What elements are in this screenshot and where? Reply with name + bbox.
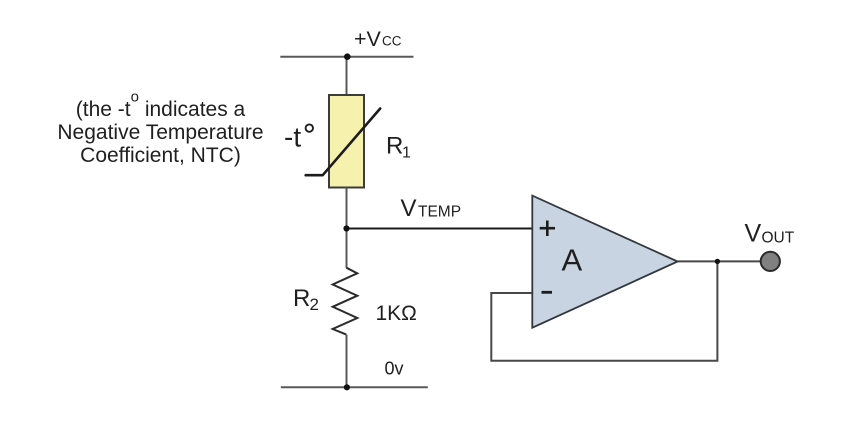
svg-text:V: V (401, 195, 417, 222)
svg-text:A: A (562, 243, 583, 278)
svg-text:-t: -t (284, 122, 301, 153)
svg-text:Negative Temperature: Negative Temperature (57, 121, 263, 144)
svg-text:2: 2 (310, 295, 319, 314)
svg-text:1: 1 (402, 145, 411, 162)
svg-text:TEMP: TEMP (418, 203, 461, 220)
svg-text:(the -to indicates a: (the -to indicates a (76, 89, 246, 122)
svg-text:Coefficient, NTC): Coefficient, NTC) (80, 144, 241, 167)
svg-text:R: R (293, 285, 310, 312)
svg-text:CC: CC (382, 33, 402, 48)
svg-text:R: R (386, 133, 403, 160)
svg-text:OUT: OUT (762, 229, 795, 246)
svg-text:V: V (745, 219, 762, 247)
svg-text:0v: 0v (385, 359, 404, 379)
svg-text:+V: +V (354, 27, 382, 51)
svg-text:1KΩ: 1KΩ (376, 302, 417, 325)
